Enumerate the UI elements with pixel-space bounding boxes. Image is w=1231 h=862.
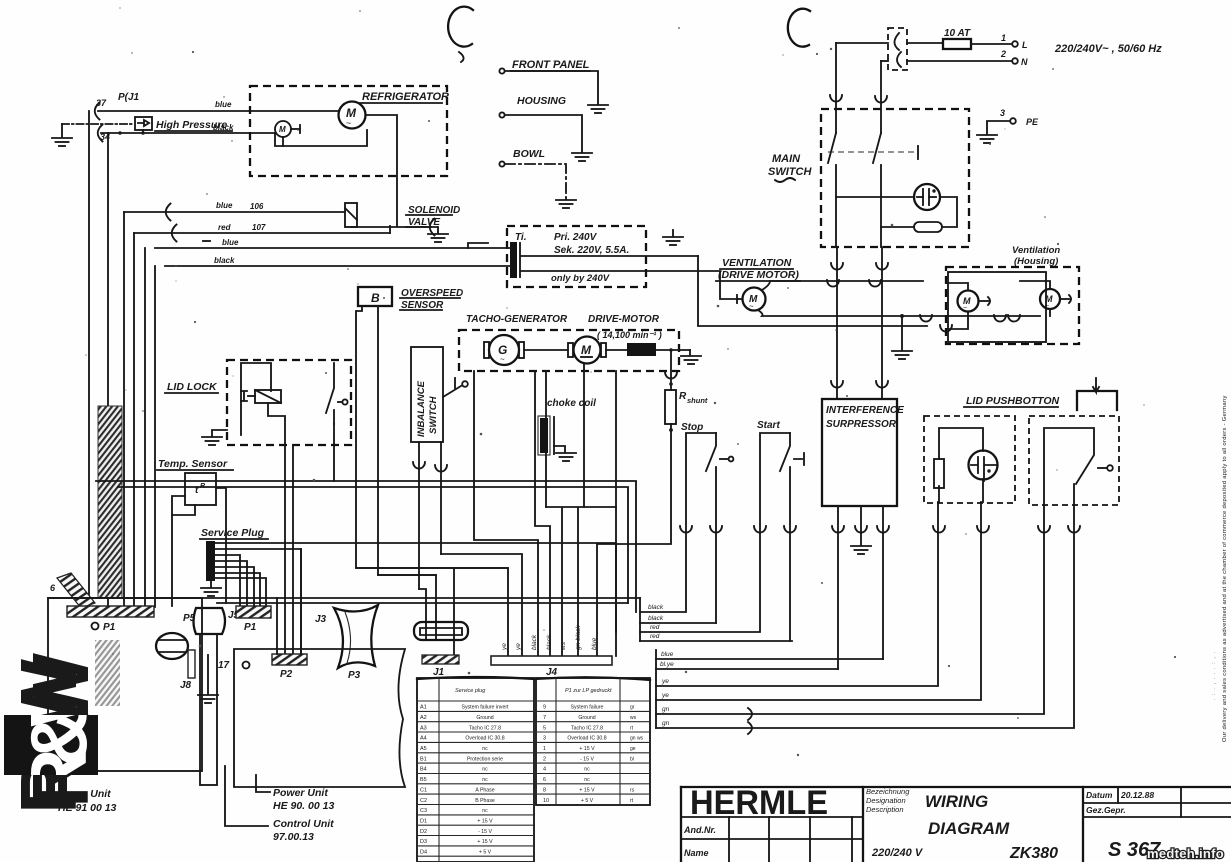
svg-text:Sek. 220V, 5.5A.: Sek. 220V, 5.5A. — [554, 245, 629, 256]
svg-text:D2: D2 — [420, 829, 427, 835]
svg-text:SWITCH: SWITCH — [428, 395, 439, 434]
svg-text:System failure invert: System failure invert — [462, 705, 510, 711]
svg-text:+ 15 V: + 15 V — [579, 746, 595, 752]
svg-text:black: black — [546, 634, 553, 650]
svg-text:blue: blue — [222, 238, 239, 247]
svg-text:6: 6 — [543, 777, 546, 783]
svg-text:+ 15 V: + 15 V — [579, 787, 595, 793]
svg-text:LID PUSHBOTTON: LID PUSHBOTTON — [966, 395, 1060, 407]
svg-text:Designation: Designation — [866, 796, 906, 805]
svg-text:LID LOCK: LID LOCK — [167, 381, 218, 393]
svg-text:Ground: Ground — [578, 715, 595, 721]
svg-text:B: B — [371, 291, 380, 305]
svg-text:DIAGRAM: DIAGRAM — [928, 819, 1010, 838]
svg-text:Power Unit: Power Unit — [273, 787, 328, 799]
svg-text:1: 1 — [543, 746, 546, 752]
svg-text:System failure: System failure — [571, 705, 604, 711]
svg-text:ye: ye — [661, 692, 669, 699]
svg-text:gn: gn — [662, 706, 670, 713]
svg-text:J1: J1 — [433, 667, 445, 678]
svg-text:P1: P1 — [103, 622, 116, 633]
svg-text:107: 107 — [252, 223, 266, 232]
svg-text:HE 90. 00 13: HE 90. 00 13 — [273, 800, 334, 812]
svg-text:FRONT PANEL: FRONT PANEL — [512, 59, 590, 71]
svg-text:D3: D3 — [420, 839, 427, 845]
svg-text:gr: gr — [630, 705, 635, 711]
svg-text:only by 240V: only by 240V — [551, 273, 610, 284]
svg-text:shunt: shunt — [687, 396, 708, 405]
svg-text:Description: Description — [866, 805, 904, 814]
svg-text:C3: C3 — [420, 808, 427, 814]
svg-text:A1: A1 — [420, 705, 427, 711]
svg-text:WIRING: WIRING — [925, 792, 988, 811]
svg-text:Stop: Stop — [681, 422, 703, 433]
svg-text:Tacho IC 27.8: Tacho IC 27.8 — [571, 725, 603, 731]
svg-text:SWITCH: SWITCH — [768, 166, 812, 178]
svg-text:8: 8 — [543, 787, 546, 793]
svg-text:Datum: Datum — [1086, 790, 1113, 800]
svg-text:choke coil: choke coil — [547, 398, 596, 409]
svg-text:nc: nc — [482, 746, 488, 752]
svg-text:A5: A5 — [420, 746, 427, 752]
svg-text:DRIVE-MOTOR: DRIVE-MOTOR — [588, 314, 660, 325]
svg-text:C1: C1 — [420, 787, 427, 793]
svg-text:B5: B5 — [420, 777, 427, 783]
svg-text:And.Nr.: And.Nr. — [683, 825, 716, 835]
svg-text:J4: J4 — [546, 667, 558, 678]
svg-text:J3: J3 — [315, 614, 327, 625]
svg-text:blue: blue — [661, 651, 674, 658]
svg-text:Pri. 240V: Pri. 240V — [554, 232, 598, 243]
svg-text:black: black — [213, 123, 234, 132]
svg-text:rs: rs — [630, 787, 635, 793]
svg-text:REFRIGERATOR: REFRIGERATOR — [362, 91, 449, 103]
svg-text:Overload IC 30.8: Overload IC 30.8 — [567, 736, 606, 742]
svg-text:black: black — [214, 256, 235, 265]
svg-text:+ 15 V: + 15 V — [477, 839, 493, 845]
svg-text:~: ~ — [1045, 303, 1049, 310]
svg-text:Tacho IC 27.8: Tacho IC 27.8 — [469, 725, 501, 731]
svg-text:BOWL: BOWL — [513, 148, 545, 160]
svg-text:nc: nc — [482, 777, 488, 783]
svg-text:B Phase: B Phase — [475, 798, 495, 804]
svg-text:Service plug: Service plug — [455, 688, 486, 694]
svg-text:VENTILATION: VENTILATION — [722, 257, 792, 269]
svg-text:220/240V~ , 50/60 Hz: 220/240V~ , 50/60 Hz — [1054, 43, 1162, 55]
svg-text:4: 4 — [543, 767, 546, 773]
svg-text:ws: ws — [630, 715, 637, 721]
svg-text:bl: bl — [630, 756, 634, 762]
svg-text:P1 zur LP gedruckt: P1 zur LP gedruckt — [565, 688, 612, 694]
svg-text:3: 3 — [1000, 108, 1005, 118]
svg-text:D1: D1 — [420, 819, 427, 825]
svg-text:J8: J8 — [180, 680, 192, 691]
svg-text:2: 2 — [543, 756, 546, 762]
svg-text:Ground: Ground — [476, 715, 493, 721]
svg-text:gn ws: gn ws — [630, 736, 644, 742]
svg-text:C2: C2 — [420, 798, 427, 804]
svg-text:~: ~ — [749, 302, 754, 311]
svg-text:nc: nc — [482, 767, 488, 773]
svg-text:Control Unit: Control Unit — [273, 818, 334, 830]
svg-text:bl.ye: bl.ye — [660, 661, 674, 668]
svg-text:D4: D4 — [420, 850, 427, 856]
svg-text:+ 5 V: + 5 V — [479, 850, 492, 856]
svg-text:ZK380: ZK380 — [1009, 845, 1058, 862]
svg-text:L: L — [1022, 40, 1028, 50]
svg-text:P(J1: P(J1 — [118, 92, 140, 103]
svg-text:A Phase: A Phase — [475, 787, 494, 793]
svg-text:P2: P2 — [280, 669, 293, 680]
svg-text:nc: nc — [482, 808, 488, 814]
svg-text:- 15 V: - 15 V — [478, 829, 492, 835]
svg-text:INTERFERENCE: INTERFERENCE — [826, 405, 904, 416]
svg-text:17: 17 — [218, 660, 230, 671]
svg-text:nc: nc — [584, 777, 590, 783]
svg-text:10 AT: 10 AT — [944, 28, 971, 39]
svg-text:P1: P1 — [244, 622, 257, 633]
svg-text:Ti.: Ti. — [515, 232, 526, 243]
svg-text:Our delivery and sales conditi: Our delivery and sales conditions as adv… — [1222, 395, 1228, 742]
svg-text:5: 5 — [543, 725, 546, 731]
svg-text:(Housing): (Housing) — [1014, 256, 1058, 267]
svg-text:B4: B4 — [420, 767, 427, 773]
svg-text:1: 1 — [1001, 33, 1006, 43]
svg-text:Gez.Gepr.: Gez.Gepr. — [1086, 805, 1126, 815]
svg-text:Bezeichnung: Bezeichnung — [866, 787, 910, 796]
svg-text:A4: A4 — [420, 736, 427, 742]
svg-text:10: 10 — [543, 798, 549, 804]
svg-text:black: black — [648, 615, 664, 622]
svg-text:B1: B1 — [420, 756, 427, 762]
svg-text:A2: A2 — [420, 715, 427, 721]
svg-text:medteh.info: medteh.info — [1147, 846, 1224, 861]
svg-text:(DRIVE MOTOR): (DRIVE MOTOR) — [718, 269, 799, 281]
svg-text:MAIN: MAIN — [772, 153, 801, 165]
svg-text:blue: blue — [216, 201, 233, 210]
svg-text:gn: gn — [662, 720, 670, 727]
svg-text:SURPRESSOR: SURPRESSOR — [826, 419, 897, 430]
svg-text:- 15 V: - 15 V — [580, 756, 594, 762]
svg-text:M: M — [279, 125, 286, 134]
svg-text:Protection serie: Protection serie — [467, 756, 503, 762]
svg-text:INBALANCE: INBALANCE — [416, 380, 427, 437]
svg-text:~: ~ — [963, 305, 967, 312]
svg-text:blue: blue — [215, 100, 232, 109]
svg-text:black: black — [531, 634, 538, 650]
svg-text:HERMLE: HERMLE — [690, 784, 828, 822]
svg-text:ge: ge — [630, 746, 636, 752]
svg-text:nc: nc — [584, 767, 590, 773]
svg-text:+ 5 V: + 5 V — [581, 798, 594, 804]
svg-text:N: N — [1021, 57, 1028, 67]
svg-text:R: R — [679, 391, 687, 402]
svg-text:red: red — [650, 633, 660, 640]
svg-text:blue: blue — [591, 637, 598, 650]
svg-text:7: 7 — [543, 715, 546, 721]
svg-text:HOUSING: HOUSING — [517, 95, 566, 107]
svg-text:97.00.13: 97.00.13 — [273, 831, 314, 843]
svg-text:P3: P3 — [348, 670, 361, 681]
svg-text:+ 15 V: + 15 V — [477, 819, 493, 825]
svg-text:3: 3 — [543, 736, 546, 742]
svg-text:ye: ye — [661, 678, 669, 685]
svg-text:~: ~ — [346, 118, 351, 128]
svg-text:ws: ws — [560, 641, 567, 650]
svg-text:A3: A3 — [420, 725, 427, 731]
svg-text:ye: ye — [501, 643, 508, 651]
svg-text:. : . , . . . :: . : . , . . . : , . — [1211, 651, 1217, 700]
svg-text:9: 9 — [543, 705, 546, 711]
svg-text:220/240 V: 220/240 V — [871, 847, 924, 859]
svg-text:( 14,100 min⁻¹ ): ( 14,100 min⁻¹ ) — [597, 330, 662, 340]
svg-text:red: red — [218, 223, 232, 232]
svg-text:red: red — [650, 624, 660, 631]
svg-text:black: black — [648, 604, 664, 611]
svg-text:Ventilation: Ventilation — [1012, 245, 1060, 256]
svg-text:TACHO-GENERATOR: TACHO-GENERATOR — [466, 314, 568, 325]
svg-text:gn-black: gn-black — [575, 625, 582, 650]
svg-text:M: M — [581, 343, 592, 357]
svg-text:106: 106 — [250, 202, 264, 211]
svg-text:Name: Name — [684, 848, 709, 858]
svg-text:2: 2 — [1000, 49, 1006, 59]
svg-text:20.12.88: 20.12.88 — [1120, 790, 1154, 800]
svg-text:PE: PE — [1026, 117, 1039, 127]
svg-text:Service Plug: Service Plug — [201, 527, 265, 539]
svg-text:Overload IC 30.8: Overload IC 30.8 — [465, 736, 504, 742]
svg-text:ye: ye — [515, 643, 522, 651]
svg-text:~: ~ — [500, 355, 505, 364]
svg-text:Start: Start — [757, 420, 780, 431]
svg-text:Temp. Sensor: Temp. Sensor — [158, 458, 228, 470]
